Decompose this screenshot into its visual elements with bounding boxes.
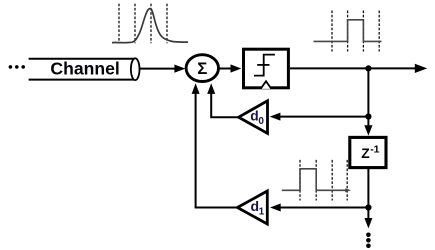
output arrowhead [415, 64, 427, 73]
svg-text:Σ: Σ [197, 59, 207, 78]
wire: channel output to summer [140, 68, 177, 70]
arrowhead up into summer (right) [207, 83, 215, 94]
waveform inset: delayed pulse (middle right) [282, 160, 351, 201]
waveform inset: slicer output pulse (top right) [314, 11, 382, 52]
small arrowhead on delayed-pulse axis [345, 188, 351, 192]
amplifier d1 [237, 191, 267, 224]
arrowhead into d0 [270, 113, 281, 121]
arrowhead into slicer [231, 64, 242, 72]
arrowhead up into summer (left) [192, 83, 200, 94]
junction: d0 feedback tap [365, 113, 371, 119]
continuation arrowhead down [364, 218, 372, 228]
channel block (cylinder) [29, 58, 140, 80]
wire: node down toward z-1 [367, 68, 369, 127]
svg-text:Channel: Channel [50, 58, 119, 78]
junction: d1 feedback tap [365, 204, 371, 210]
svg-text:1: 1 [259, 206, 265, 217]
arrowhead into z-1 [364, 125, 372, 135]
svg-text:0: 0 [258, 116, 264, 127]
junction: output node [365, 65, 371, 71]
wire: slicer output to the right [290, 67, 416, 69]
delay block z-1 [350, 137, 386, 167]
svg-text:d: d [250, 108, 258, 123]
summer node U1 (sigma) [186, 55, 218, 82]
wire: d1 to summer [196, 93, 238, 208]
slicer/decision box U2 [244, 49, 289, 88]
slicer transfer-function glyph [254, 55, 275, 76]
wire: continuation below d1 tap [367, 208, 369, 221]
waveform inset: channel pulse response (top left) [112, 4, 188, 44]
amplifier d0 [239, 101, 268, 134]
wire: tap to d1 amplifier [279, 207, 369, 209]
wire: d0 to summer [211, 93, 238, 118]
arrowhead into summer [174, 65, 185, 73]
clock wedge on slicer [261, 81, 272, 89]
wire: summer to slicer [219, 68, 232, 70]
svg-text:-1: -1 [370, 144, 379, 156]
wire: tap to d0 amplifier [279, 116, 369, 118]
ellipsis continuation dots [366, 233, 371, 249]
input ellipsis dots [9, 65, 25, 69]
svg-text:Z: Z [361, 146, 370, 161]
wire: z-1 down to d1 tap [367, 169, 369, 208]
arrowhead into d1 [270, 204, 281, 212]
